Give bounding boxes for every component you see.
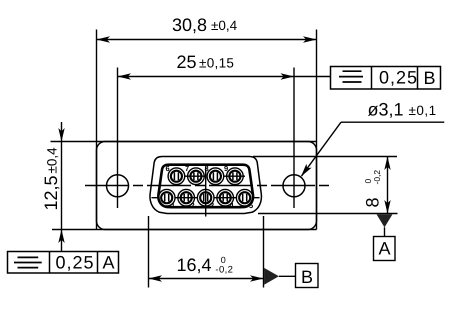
svg-text:B: B: [424, 68, 436, 88]
right hole vertical centerline / 25 extension: [293, 68, 295, 209]
svg-text:1: 1: [171, 201, 175, 210]
contact bottom row 5: [236, 189, 253, 206]
svg-text:2: 2: [191, 201, 195, 210]
contact bottom row 1: [158, 189, 175, 206]
svg-text:±0,15: ±0,15: [199, 55, 234, 70]
svg-text:±0,4: ±0,4: [45, 147, 60, 174]
svg-text:7: 7: [185, 164, 189, 173]
datum A triangle: [377, 214, 393, 227]
dimension 8 0/-0,2: [253, 157, 398, 214]
svg-text:8: 8: [205, 164, 209, 173]
dimension 30,8 ±0,4: [97, 39, 317, 41]
symmetry symbol: [14, 257, 42, 267]
dimension 12,5 ±0,4: [61, 122, 63, 252]
contact top row 3: [207, 168, 224, 185]
insert inner outline (thick): [158, 165, 253, 208]
svg-text:16,4: 16,4: [177, 255, 212, 275]
insert bottom row centerline: [152, 197, 260, 199]
symmetry symbol: [339, 71, 363, 82]
feature control frame 0,25 B: [331, 67, 441, 90]
svg-text:8: 8: [363, 197, 383, 207]
dimension 25 ±0,15: [118, 76, 331, 78]
svg-text:9: 9: [224, 164, 228, 173]
contacts: [158, 168, 253, 206]
svg-text:±0,4: ±0,4: [211, 18, 238, 33]
svg-text:0,25: 0,25: [379, 68, 418, 88]
svg-text:0,25: 0,25: [56, 253, 95, 273]
pin numbers bottom row: [171, 201, 253, 210]
svg-text:-0,2: -0,2: [215, 265, 233, 276]
svg-text:12,5: 12,5: [41, 175, 61, 210]
svg-text:5: 5: [249, 201, 253, 210]
svg-text:3: 3: [210, 201, 214, 210]
left hole vertical centerline / 25 extension: [117, 68, 119, 209]
dimension 16,4 0/-0,2: [149, 216, 264, 288]
horizontal part centerline: [85, 185, 330, 187]
contact top row 4: [227, 168, 244, 185]
svg-text:A: A: [103, 253, 115, 273]
insert vertical centerline: [205, 167, 207, 217]
mounting hole right: [283, 175, 305, 197]
svg-text:-0,2: -0,2: [372, 170, 382, 185]
pin numbers top row: [166, 164, 229, 173]
datum B triangle: [264, 268, 279, 285]
svg-text:B: B: [301, 267, 313, 287]
flange top edge extended left (12,5 extension): [51, 141, 317, 143]
contact bottom row 3: [197, 189, 214, 206]
insert top row centerline: [185, 175, 246, 177]
contact top row 2: [188, 168, 205, 185]
svg-text:ø3,1: ø3,1: [368, 100, 404, 120]
flange left edge / 30,8 extension line: [96, 30, 98, 230]
mounting hole left: [107, 175, 129, 197]
flange outline: [97, 142, 317, 230]
svg-text:±0,1: ±0,1: [409, 103, 437, 118]
flange bottom edge extended left (12,5 extension): [52, 229, 317, 231]
svg-text:0: 0: [221, 255, 226, 265]
svg-text:30,8: 30,8: [172, 15, 207, 35]
contact bottom row 4: [217, 189, 234, 206]
datum B box: [296, 264, 319, 288]
contact bottom row 2: [178, 189, 195, 206]
datum A box: [374, 237, 396, 261]
svg-text:25: 25: [177, 52, 197, 72]
feature control frame 0,25 A: [8, 252, 119, 274]
contact top row 1: [168, 168, 185, 185]
svg-text:A: A: [379, 239, 391, 259]
dimension ø3,1 ±0,1 leader: [302, 122, 445, 176]
flange right edge / 30,8 extension line: [316, 30, 318, 230]
svg-text:6: 6: [166, 164, 170, 173]
insert outer outline: [150, 157, 261, 214]
